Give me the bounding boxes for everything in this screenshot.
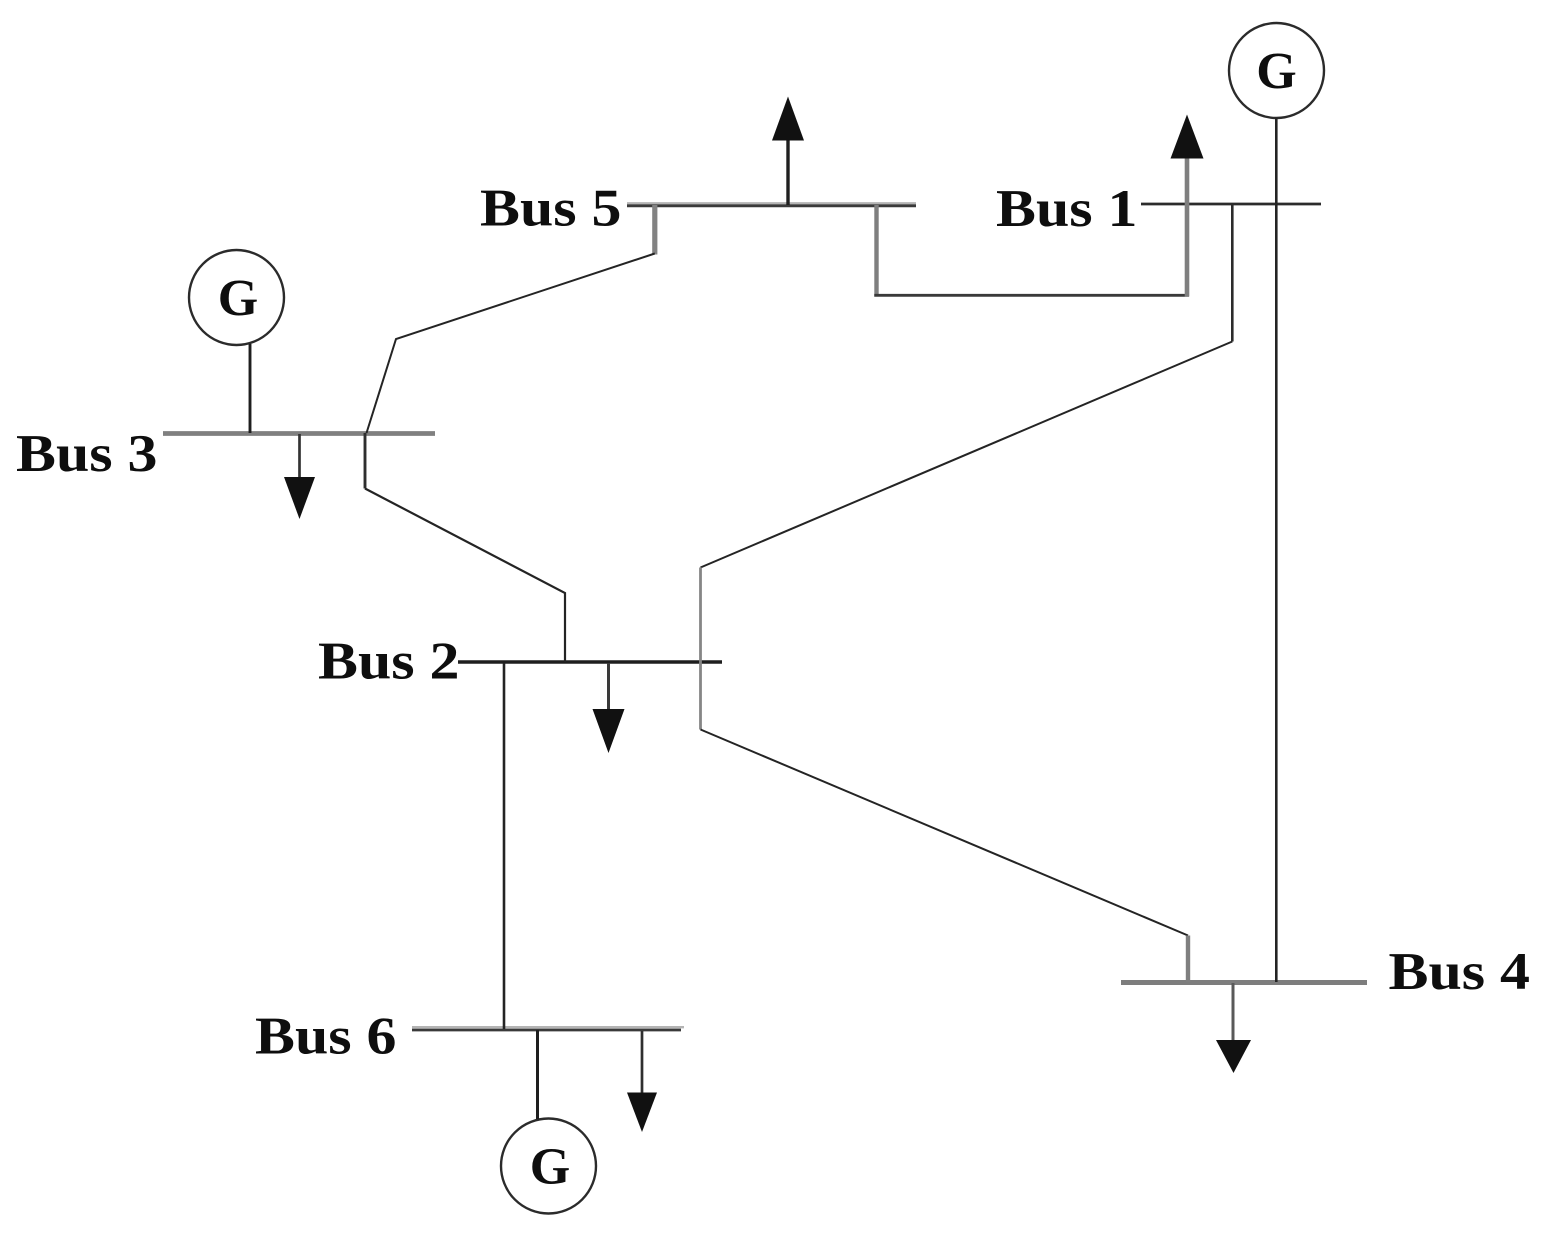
line Bus 2 to Bus 6 — [503, 663, 506, 1029]
bus bar Bus 6 — [412, 1027, 684, 1030]
bus bar Bus 5 — [627, 203, 916, 206]
svg-text:G: G — [218, 270, 258, 327]
generator G6 at Bus 6 — [501, 1030, 596, 1214]
svg-text:Bus 4: Bus 4 — [1389, 943, 1530, 1001]
load arrow at Bus 4 — [1216, 983, 1251, 1073]
svg-text:G: G — [530, 1139, 570, 1196]
line Bus 5 to Bus 3 — [367, 205, 655, 433]
load arrow at Bus 6 — [627, 1031, 657, 1132]
svg-text:Bus 2: Bus 2 — [318, 632, 459, 690]
line Bus 1 to Bus 4 with generator stem — [1275, 118, 1278, 982]
bus bar Bus 1 — [1141, 203, 1321, 206]
load arrow at Bus 3 — [284, 434, 315, 519]
injection arrow at Bus 5 — [772, 97, 804, 206]
load arrow at Bus 2 — [593, 663, 625, 753]
bus bar Bus 3 — [163, 431, 435, 436]
line Bus 1 to Bus 2 — [701, 205, 1233, 662]
injection arrow at Bus 1 — [1171, 115, 1204, 297]
svg-text:G: G — [1256, 43, 1296, 100]
svg-text:Bus 3: Bus 3 — [16, 425, 157, 483]
svg-text:Bus 5: Bus 5 — [480, 180, 621, 238]
bus bar Bus 4 — [1121, 980, 1367, 985]
svg-text:Bus 1: Bus 1 — [996, 180, 1137, 238]
bus bar Bus 2 — [458, 660, 722, 664]
line Bus 3 to Bus 2 — [365, 433, 565, 662]
line Bus 5 to Bus 1 — [874, 205, 1189, 297]
generator G3 at Bus 3 — [189, 250, 284, 433]
line Bus 2 to Bus 4 — [701, 662, 1189, 982]
generator G1 at Bus 1 — [1229, 23, 1324, 118]
svg-text:Bus 6: Bus 6 — [255, 1008, 396, 1066]
